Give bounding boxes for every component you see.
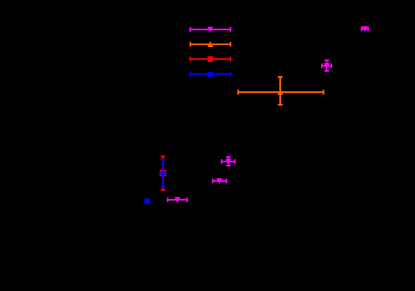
data point: blue pentagon (no errorbar) xyxy=(144,197,150,203)
legend entry 3: red square errorbar handle xyxy=(190,56,230,62)
legend entry 4: blue pentagon errorbar handle xyxy=(190,71,230,77)
data point: red square with vertical errorbar xyxy=(160,156,167,190)
data point: magenta triangle-down with x errorbar xyxy=(168,197,187,203)
data point: magenta triangle-down with small x errorbar xyxy=(362,26,369,32)
data point: magenta triangle-down with x and y errorbars xyxy=(222,157,235,166)
legend entry 1: magenta triangle-down errorbar handle xyxy=(190,27,230,33)
data point: magenta triangle-down with x errorbar xyxy=(213,178,227,184)
data point: magenta triangle-down with x and y errorbars xyxy=(322,60,332,71)
data point: big orange triangle-up with x and y errorbars xyxy=(238,77,323,105)
legend entry 2: orange triangle-up errorbar handle xyxy=(190,41,230,47)
data point: blue pentagon with vertical errorbar (overlapping red) xyxy=(160,160,165,187)
